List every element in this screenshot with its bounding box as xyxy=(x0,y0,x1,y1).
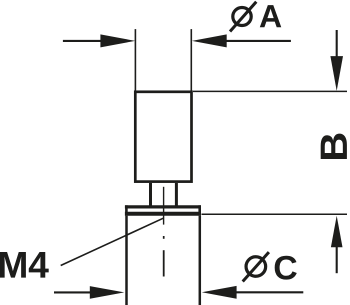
label diameter symbol of OC xyxy=(243,252,269,281)
label B rotated xyxy=(321,134,347,159)
leader line M4 xyxy=(61,218,164,265)
extension line left of diameter A xyxy=(134,29,136,91)
body neck right edge xyxy=(175,183,178,207)
dimension line OC right segment xyxy=(236,291,303,293)
arrowhead OC left xyxy=(90,286,125,299)
body neck left edge xyxy=(149,183,152,207)
dimension line OA left segment xyxy=(63,40,101,42)
extension line right of diameter A xyxy=(190,29,192,91)
label A xyxy=(260,5,281,27)
body lower cylinder right edge xyxy=(199,216,202,305)
label 4 xyxy=(29,252,49,278)
centerline dot xyxy=(163,236,165,239)
arrowhead OA left xyxy=(100,34,135,47)
extension line bottom of dimension B xyxy=(202,213,348,215)
arrowhead B top xyxy=(330,56,343,91)
body flange right edge xyxy=(198,205,201,215)
body flange top edge xyxy=(125,205,201,208)
label C xyxy=(275,256,297,280)
body upper cylinder xyxy=(135,92,191,182)
arrowhead OC right xyxy=(202,286,237,299)
extension line top of dimension B xyxy=(193,90,347,92)
thread line M4 xyxy=(163,187,165,225)
body lower cylinder left edge xyxy=(125,216,128,305)
body flange bottom edge xyxy=(125,212,201,216)
dimension line B bottom segment xyxy=(336,247,338,273)
body flange left edge xyxy=(125,205,128,215)
label diameter symbol of OA xyxy=(230,2,256,32)
dimension line B top segment xyxy=(336,30,338,57)
label M xyxy=(0,252,26,278)
dimension line OC left segment xyxy=(54,291,91,293)
arrowhead B bottom xyxy=(331,216,343,248)
dimension line OA right segment xyxy=(226,40,291,42)
arrowhead OA right xyxy=(192,34,227,47)
centerline dash xyxy=(163,250,165,276)
